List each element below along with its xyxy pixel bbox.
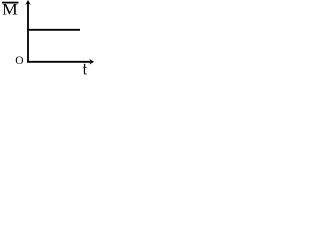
t stem top extension bbox=[84, 64, 85, 67]
svg-text:O: O bbox=[15, 55, 23, 67]
y-axis (vertical axis line) bbox=[27, 3, 29, 63]
plot line: constant M value vs t bbox=[27, 29, 80, 31]
overline bar of M (mean symbol) bbox=[2, 2, 18, 4]
svg-text:M: M bbox=[2, 2, 18, 19]
y-axis arrowhead (up) bbox=[25, 0, 31, 5]
x-axis (horizontal t axis line) bbox=[27, 61, 90, 63]
x-axis arrowhead (right) bbox=[89, 59, 94, 65]
